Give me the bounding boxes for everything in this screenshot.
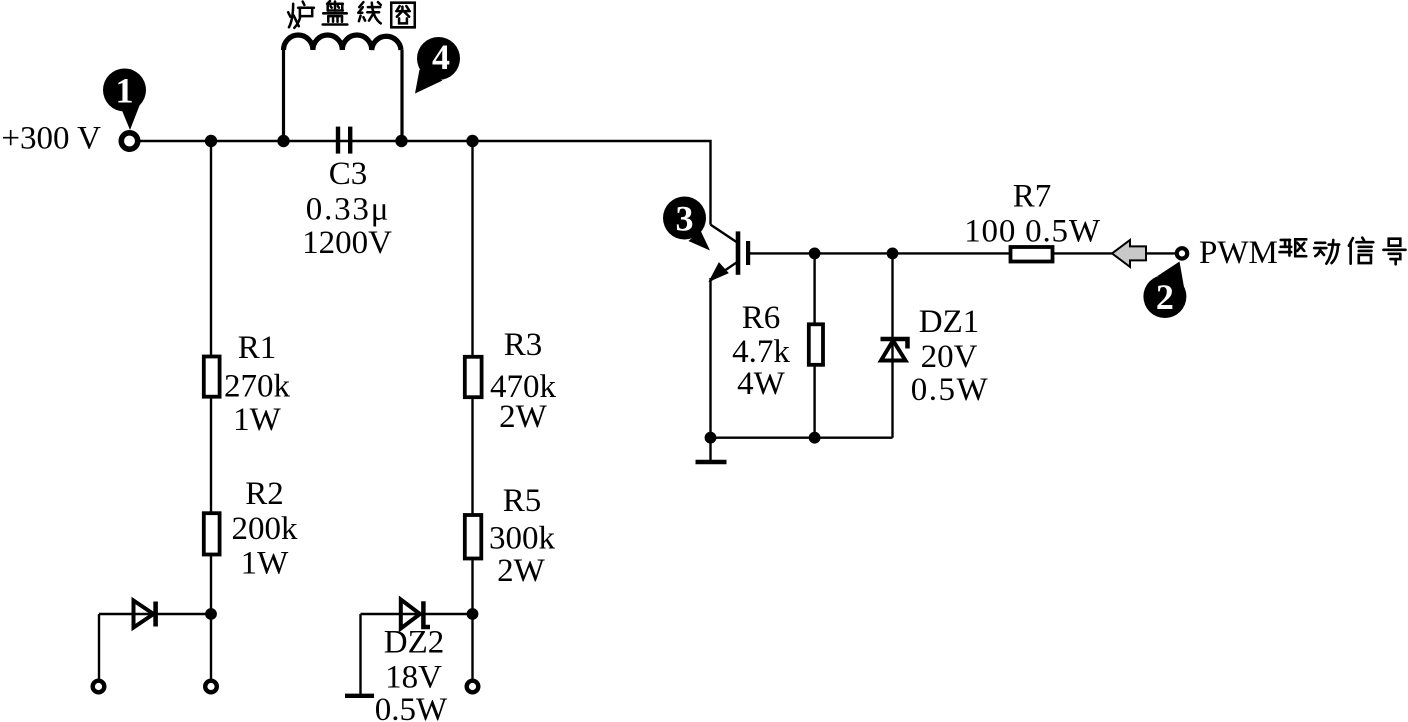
svg-text:20V: 20V xyxy=(921,339,978,375)
svg-text:2W: 2W xyxy=(499,399,548,435)
svg-text:PWM: PWM xyxy=(1199,235,1278,271)
svg-text:270k: 270k xyxy=(224,369,291,405)
svg-text:DZ1: DZ1 xyxy=(919,304,980,340)
svg-text:R1: R1 xyxy=(238,330,277,366)
svg-text:1W: 1W xyxy=(241,546,290,582)
svg-text:0.5W: 0.5W xyxy=(375,692,448,722)
svg-text:300k: 300k xyxy=(489,521,556,557)
svg-text:R7: R7 xyxy=(1013,179,1052,215)
svg-text:R2: R2 xyxy=(245,476,284,512)
svg-text:R3: R3 xyxy=(504,327,543,363)
svg-text:2W: 2W xyxy=(497,553,546,589)
svg-text:C3: C3 xyxy=(329,156,368,192)
svg-text:R6: R6 xyxy=(742,300,781,336)
svg-text:100 0.5W: 100 0.5W xyxy=(964,214,1101,250)
svg-text:18V: 18V xyxy=(385,660,442,696)
svg-text:R5: R5 xyxy=(503,483,542,519)
svg-text:200k: 200k xyxy=(232,511,299,547)
svg-text:2: 2 xyxy=(1156,277,1174,317)
svg-text:4W: 4W xyxy=(737,366,786,402)
svg-text:1200V: 1200V xyxy=(302,225,392,261)
svg-text:4.7k: 4.7k xyxy=(732,334,790,370)
svg-text:1: 1 xyxy=(116,71,134,111)
svg-text:3: 3 xyxy=(676,199,694,239)
svg-text:0.5W: 0.5W xyxy=(911,372,989,408)
svg-text:0.33μ: 0.33μ xyxy=(306,192,390,228)
svg-text:+300 V: +300 V xyxy=(1,121,101,157)
svg-text:DZ2: DZ2 xyxy=(384,625,445,661)
svg-text:4: 4 xyxy=(432,37,450,77)
svg-text:1W: 1W xyxy=(233,402,282,438)
